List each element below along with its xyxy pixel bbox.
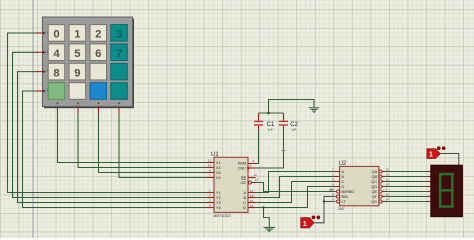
7-segment digit 8 segments bbox=[439, 173, 454, 208]
svg-text:8: 8 bbox=[53, 67, 59, 79]
U2 pin QF bbox=[372, 193, 389, 199]
keypad button 1 bbox=[69, 25, 86, 42]
svg-text:15: 15 bbox=[250, 199, 254, 203]
keypad col label 3 bbox=[97, 103, 99, 105]
U2 pin LT bbox=[332, 198, 346, 204]
wire keypad row A to U1 Y1 bbox=[8, 33, 207, 193]
svg-text:QF: QF bbox=[372, 195, 378, 199]
svg-text:1: 1 bbox=[74, 29, 80, 41]
svg-text:U1: U1 bbox=[211, 152, 219, 158]
svg-text:4: 4 bbox=[53, 48, 60, 60]
U1 pin OE bbox=[241, 178, 259, 186]
U1 pin D bbox=[243, 204, 255, 210]
U1 pin C bbox=[243, 199, 255, 205]
IC U1 body bbox=[214, 157, 248, 212]
wire U2 QC to display bbox=[384, 181, 427, 183]
C1 value label bbox=[268, 127, 273, 131]
svg-text:D: D bbox=[342, 185, 345, 189]
wire U2 QA to display bbox=[384, 171, 427, 173]
keypad row label B bbox=[47, 50, 50, 54]
svg-text:Y2: Y2 bbox=[216, 196, 221, 200]
keypad pin col 1 bbox=[57, 107, 59, 114]
wire keypad col 1 to U1 X1 bbox=[58, 112, 207, 163]
capacitor C1 bbox=[254, 114, 263, 130]
U1 pin OSC bbox=[238, 164, 256, 171]
keypad body bbox=[43, 17, 133, 107]
U1 pin Y3 bbox=[207, 199, 221, 205]
U1 pin X3 bbox=[207, 169, 221, 175]
svg-text:BI/RBO: BI/RBO bbox=[342, 190, 355, 194]
C2 value label bbox=[291, 127, 296, 131]
keypad button 0 bbox=[48, 25, 64, 42]
IC U2 body bbox=[340, 166, 379, 205]
svg-text:RBI: RBI bbox=[342, 195, 348, 199]
svg-text:14: 14 bbox=[250, 204, 254, 208]
crossing marker near U2 BI/RBO bbox=[329, 188, 333, 192]
wire keypad row B to U1 Y2 bbox=[13, 52, 207, 197]
svg-text:X4: X4 bbox=[216, 176, 221, 180]
keypad pin col 4 bbox=[118, 107, 120, 114]
svg-text:X3: X3 bbox=[216, 171, 221, 175]
flag bottom dots bbox=[312, 216, 321, 220]
keypad pin row B bbox=[36, 51, 47, 54]
svg-text:13: 13 bbox=[386, 168, 390, 172]
svg-text:LT: LT bbox=[342, 200, 347, 204]
keypad button 5 bbox=[69, 44, 86, 61]
svg-text:12: 12 bbox=[386, 173, 390, 177]
junction on D wire to ground bbox=[262, 206, 264, 208]
U1 pin X2 bbox=[207, 164, 221, 170]
wire U1 KBM to C1 bbox=[256, 129, 259, 163]
keypad shadow bbox=[44, 19, 134, 109]
svg-text:QA: QA bbox=[372, 170, 378, 174]
svg-text:11: 11 bbox=[208, 159, 211, 163]
keypad button 4 bbox=[48, 44, 64, 61]
U1 pin Y2 bbox=[207, 194, 221, 200]
wire keypad col 2 to U1 X2 bbox=[78, 112, 207, 168]
wire U2 QE to display bbox=[384, 191, 427, 193]
keypad row label C bbox=[47, 69, 50, 73]
wire U1 OSC to C2 bbox=[256, 129, 284, 168]
svg-text:QD: QD bbox=[371, 185, 377, 189]
logic state flag bottom bbox=[301, 218, 314, 228]
svg-text:C: C bbox=[243, 201, 246, 205]
crossing marker on C2 lead bbox=[282, 149, 286, 153]
svg-text:16: 16 bbox=[250, 194, 254, 198]
svg-text:Y3: Y3 bbox=[216, 201, 221, 205]
wire flag bottom to U2 RBI bbox=[314, 197, 335, 223]
keypad col label 1 bbox=[56, 103, 58, 105]
U2 pin QC bbox=[371, 178, 389, 184]
svg-text:X1: X1 bbox=[216, 161, 221, 165]
U1 pin X4 bbox=[207, 174, 221, 180]
svg-text:1uF: 1uF bbox=[268, 127, 273, 131]
keypad button blank cream r4c2 bbox=[69, 83, 86, 100]
svg-text:KBM: KBM bbox=[238, 162, 246, 166]
svg-text:0: 0 bbox=[53, 29, 59, 41]
svg-text:10: 10 bbox=[386, 183, 390, 187]
U2 pin A bbox=[332, 168, 345, 174]
wire flag top to display bbox=[440, 154, 459, 166]
U2 pin QA bbox=[372, 168, 390, 174]
svg-text:7: 7 bbox=[116, 48, 122, 60]
svg-text:X2: X2 bbox=[216, 166, 221, 170]
svg-text:13: 13 bbox=[255, 178, 259, 182]
wire U1 C to U2 C bbox=[256, 182, 335, 203]
svg-text:15: 15 bbox=[386, 193, 390, 197]
capacitor C2 bbox=[279, 113, 288, 130]
wire keypad row D to U1 Y4 bbox=[23, 91, 207, 208]
keypad pin col 3 bbox=[98, 107, 100, 114]
svg-text:3: 3 bbox=[116, 29, 122, 41]
U1 pin KBM bbox=[238, 159, 256, 166]
wire U2 QB to display bbox=[384, 176, 427, 178]
U1 pin Y1 bbox=[207, 189, 221, 195]
wire U1 B to U2 B bbox=[256, 177, 335, 198]
svg-text:12: 12 bbox=[254, 173, 258, 177]
U2 pin QD bbox=[371, 183, 389, 189]
wire keypad col 3 to U1 X3 bbox=[99, 112, 207, 173]
svg-text:10: 10 bbox=[208, 164, 212, 168]
U2 pin QB bbox=[372, 173, 390, 179]
U2 pin RBI bbox=[332, 193, 348, 199]
keypad button 6 bbox=[90, 44, 107, 61]
wire U2 QF to display bbox=[384, 196, 427, 198]
display pin stubs bbox=[428, 172, 432, 202]
7-segment display body bbox=[431, 165, 463, 217]
svg-text:14: 14 bbox=[386, 198, 390, 202]
wire U1 A to U2 A bbox=[256, 172, 335, 193]
svg-text:1: 1 bbox=[303, 221, 307, 228]
keypad button green r4c1 bbox=[48, 83, 64, 100]
svg-text:7447: 7447 bbox=[337, 207, 345, 211]
wire U2 QG to display bbox=[384, 201, 427, 203]
keypad col label 2 bbox=[77, 103, 79, 105]
keypad row label D bbox=[47, 88, 50, 92]
svg-text:9: 9 bbox=[74, 67, 80, 79]
svg-text:QC: QC bbox=[371, 180, 377, 184]
svg-text:U2: U2 bbox=[339, 161, 347, 167]
keypad button teal r4c4 bbox=[111, 83, 128, 100]
U1 pin B bbox=[243, 194, 255, 200]
svg-text:Y4: Y4 bbox=[216, 206, 221, 210]
U2 reference label bbox=[339, 161, 347, 167]
U1 pin A bbox=[243, 189, 255, 195]
sheet border line bbox=[32, 0, 34, 238]
keypad pin col 2 bbox=[77, 107, 79, 114]
keypad button 2 bbox=[90, 25, 107, 42]
U1 pin X1 bbox=[207, 159, 221, 165]
svg-text:D: D bbox=[243, 206, 246, 210]
ground symbol top bbox=[309, 108, 319, 113]
svg-text:1uF: 1uF bbox=[291, 127, 296, 131]
keypad pin row A bbox=[36, 32, 47, 35]
svg-text:OE: OE bbox=[241, 181, 247, 185]
ground symbol bottom bbox=[264, 227, 276, 231]
svg-text:2: 2 bbox=[95, 29, 101, 41]
keypad pin row C bbox=[36, 70, 47, 73]
U2 pin D bbox=[332, 183, 345, 189]
svg-text:Y1: Y1 bbox=[216, 191, 221, 195]
U1 value label MM74C922 bbox=[214, 214, 231, 218]
U2 pin B bbox=[332, 173, 345, 179]
junction at flag branch bbox=[323, 200, 325, 202]
keypad button blank cream r3c3 bbox=[90, 63, 107, 80]
keypad pin row D bbox=[36, 90, 47, 93]
keypad col label 4 bbox=[118, 103, 120, 105]
svg-text:C: C bbox=[342, 180, 345, 184]
flag top dots bbox=[437, 146, 446, 150]
svg-text:QE: QE bbox=[372, 190, 378, 194]
U2 pin QE bbox=[372, 188, 388, 194]
U2 pin QG bbox=[371, 198, 389, 204]
keypad button 8 bbox=[48, 63, 64, 80]
wire junction branch to U2 LT bbox=[324, 201, 335, 203]
keypad button 9 bbox=[69, 63, 86, 80]
svg-text:11: 11 bbox=[386, 178, 389, 182]
svg-text:QG: QG bbox=[371, 200, 377, 204]
wire keypad row C to U1 Y3 bbox=[18, 72, 207, 203]
U1 reference label bbox=[211, 152, 219, 158]
C1 reference label bbox=[267, 122, 275, 128]
keypad button 7 bbox=[111, 44, 128, 61]
C2 reference label bbox=[290, 122, 298, 128]
svg-text:MM74C922: MM74C922 bbox=[214, 214, 231, 218]
keypad row label A bbox=[47, 30, 50, 34]
logic state flag top bbox=[427, 149, 440, 159]
svg-text:6: 6 bbox=[95, 48, 101, 60]
keypad button blank teal r3c4 bbox=[111, 63, 128, 80]
svg-text:QB: QB bbox=[372, 175, 378, 179]
keypad button 3 bbox=[111, 25, 128, 42]
U2 value label 7447 bbox=[337, 207, 345, 211]
wire capacitor top bus to ground bbox=[269, 100, 315, 114]
svg-text:DA: DA bbox=[241, 176, 247, 180]
svg-text:17: 17 bbox=[250, 189, 254, 193]
svg-text:5: 5 bbox=[74, 48, 80, 60]
wire C1 to C2 bus bbox=[259, 112, 284, 114]
svg-text:OSC: OSC bbox=[238, 166, 246, 170]
wire U1 D to U2 D bbox=[256, 187, 335, 208]
junction on capacitor bus bbox=[267, 112, 270, 115]
wire keypad col 4 to U1 X4 bbox=[119, 112, 207, 178]
wire D line to ground bbox=[264, 208, 270, 228]
svg-text:1: 1 bbox=[429, 152, 433, 159]
U2 pin C bbox=[332, 178, 345, 184]
wire U1 OE to U2 BI/RBO bbox=[256, 183, 336, 192]
U2 pin BI/RBO bbox=[332, 188, 354, 194]
keypad button blue r4c3 bbox=[90, 83, 107, 100]
U1 pin DA bbox=[241, 173, 257, 180]
wire U2 QD to display bbox=[384, 186, 427, 188]
U1 pin Y4 bbox=[207, 204, 221, 210]
